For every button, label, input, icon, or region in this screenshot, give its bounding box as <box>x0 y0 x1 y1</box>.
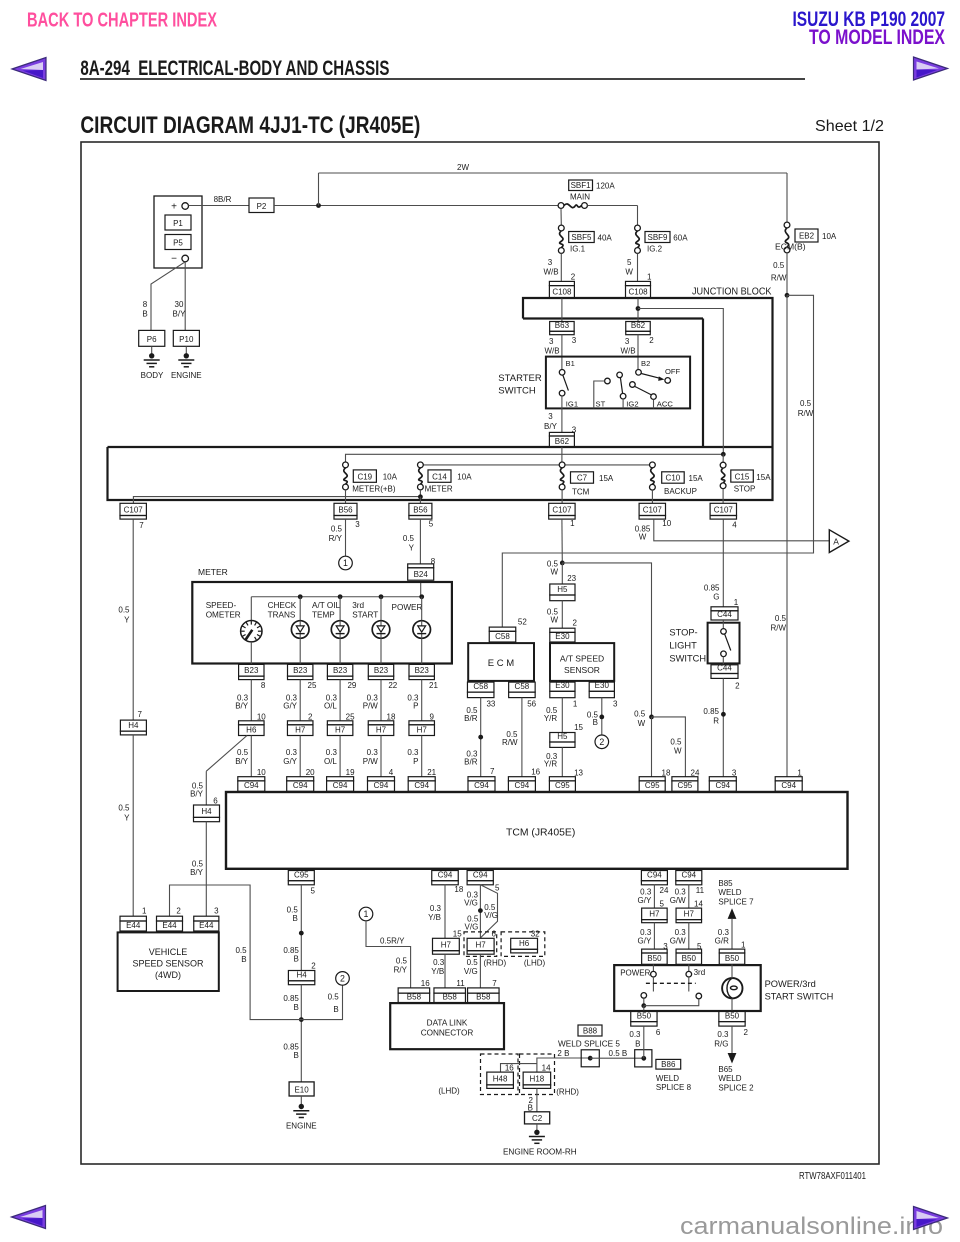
lamp A/T OIL TEMP <box>339 597 341 621</box>
wire H4-6 down <box>205 822 207 917</box>
svg-text:B62: B62 <box>555 437 570 446</box>
svg-text:C10: C10 <box>666 474 681 483</box>
svg-text:C15: C15 <box>735 472 750 481</box>
svg-text:P2: P2 <box>257 202 267 211</box>
H5-15 <box>550 733 575 743</box>
H4-7 <box>120 720 146 731</box>
svg-text:C94: C94 <box>781 781 796 790</box>
svg-text:19: 19 <box>346 768 355 777</box>
node bus col5 <box>419 594 424 599</box>
wire EB2 down <box>786 253 788 295</box>
svg-text:P: P <box>413 701 418 710</box>
svg-text:1: 1 <box>647 273 652 282</box>
svg-text:E C M: E C M <box>488 658 514 669</box>
svg-text:3: 3 <box>355 520 360 529</box>
svg-text:16: 16 <box>531 768 540 777</box>
wire C94-11 to H7-14 <box>688 885 690 909</box>
svg-text:IG2: IG2 <box>626 400 638 409</box>
svg-text:0.5: 0.5 <box>634 709 646 718</box>
junction block inner vertical <box>702 319 704 448</box>
C94-3 <box>709 777 736 781</box>
P2 <box>249 198 274 213</box>
svg-text:Y: Y <box>124 615 130 624</box>
svg-text:OFF: OFF <box>665 367 681 376</box>
svg-text:A: A <box>833 537 839 547</box>
svg-text:W: W <box>625 268 633 277</box>
svg-text:ACC: ACC <box>657 400 674 409</box>
svg-text:STOP-: STOP- <box>669 628 697 638</box>
svg-text:R/W: R/W <box>502 738 518 747</box>
svg-text:G/W: G/W <box>670 896 686 905</box>
svg-text:R: R <box>713 717 719 726</box>
svg-text:B58: B58 <box>476 992 491 1001</box>
wire meter col4 <box>380 663 382 666</box>
svg-text:C107: C107 <box>643 505 663 514</box>
svg-text:15A: 15A <box>599 474 614 483</box>
TCM box <box>226 792 848 869</box>
connector B62 top <box>626 322 651 332</box>
connector B56-3 <box>334 503 357 515</box>
ground ENGINE (E10) <box>300 1096 302 1105</box>
wire battery- to P6 (diagonal) <box>151 262 185 331</box>
svg-text:0.5: 0.5 <box>118 606 130 615</box>
fuse SBF1 MAIN 120A <box>558 203 564 209</box>
svg-text:TO MODEL INDEX: TO MODEL INDEX <box>809 25 945 49</box>
svg-text:0.5: 0.5 <box>287 905 299 914</box>
dashed box RHD H18 <box>520 1054 555 1095</box>
wire branch C95-18 column <box>649 715 654 720</box>
wire C107-7 down to H4 <box>132 519 134 720</box>
meter internal bus <box>251 596 421 598</box>
svg-text:H4: H4 <box>201 807 212 816</box>
svg-text:0.5: 0.5 <box>775 614 787 623</box>
svg-text:1: 1 <box>343 558 348 568</box>
svg-text:A/T OIL: A/T OIL <box>312 601 341 610</box>
C94-20 <box>287 777 314 781</box>
svg-text:32: 32 <box>531 930 540 939</box>
svg-text:DATA LINK: DATA LINK <box>427 1018 468 1027</box>
svg-text:24: 24 <box>660 886 669 895</box>
wire bus to C15 column <box>638 309 723 453</box>
svg-text:O/L: O/L <box>324 701 337 710</box>
svg-text:B/Y: B/Y <box>190 868 204 877</box>
E44-2 <box>157 916 183 921</box>
svg-text:ENGINE ROOM-RH: ENGINE ROOM-RH <box>503 1148 577 1157</box>
svg-text:B: B <box>294 1003 299 1012</box>
fuse SBF5 IG.1 40A <box>560 209 562 225</box>
svg-text:0.3: 0.3 <box>629 1030 641 1039</box>
svg-text:P1: P1 <box>173 219 183 228</box>
C44-2 <box>711 665 738 674</box>
connector B63 <box>550 322 575 332</box>
svg-text:7: 7 <box>492 979 497 988</box>
lower bus to C107-7 <box>133 497 420 504</box>
wire meter col3 <box>339 663 341 666</box>
C94-21 <box>408 777 435 781</box>
svg-text:H7: H7 <box>295 725 306 734</box>
svg-text:C44: C44 <box>717 663 732 672</box>
wire power contact to B50-6 <box>643 1006 645 1011</box>
C94-7 <box>468 777 495 781</box>
node bus col3 <box>338 594 343 599</box>
svg-text:B/Y: B/Y <box>544 422 558 431</box>
svg-text:B58: B58 <box>443 992 458 1001</box>
svg-text:CHECK: CHECK <box>268 601 297 610</box>
svg-text:22: 22 <box>388 681 397 690</box>
svg-text:R/W: R/W <box>771 274 787 283</box>
wire H5-15 to C95-13 <box>561 747 563 776</box>
svg-text:60A: 60A <box>673 234 688 243</box>
svg-text:B65: B65 <box>718 1065 733 1074</box>
H4-2 <box>288 971 314 981</box>
svg-text:C58: C58 <box>473 682 488 691</box>
connector B24 <box>408 564 434 568</box>
H7-18 <box>368 721 394 725</box>
wire B56-5 to B24 <box>419 519 421 564</box>
svg-text:15: 15 <box>574 723 583 732</box>
svg-text:H6: H6 <box>246 725 257 734</box>
svg-text:C19: C19 <box>357 472 372 481</box>
svg-text:P5: P5 <box>173 239 183 248</box>
svg-text:0.5: 0.5 <box>396 957 408 966</box>
wire C58-33 to C94-7 <box>480 698 482 777</box>
node junction to 2W <box>316 203 321 208</box>
svg-text:B: B <box>635 1039 640 1048</box>
switch contact power <box>652 964 654 971</box>
svg-text:B/R: B/R <box>464 758 478 767</box>
svg-text:C14: C14 <box>432 472 447 481</box>
svg-text:C94: C94 <box>715 781 730 790</box>
H7-2 <box>287 721 313 725</box>
svg-text:V/G: V/G <box>464 898 478 907</box>
wire H7-6 to B58-7 <box>479 954 481 988</box>
svg-text:15: 15 <box>453 930 462 939</box>
E10 <box>289 1082 314 1096</box>
svg-text:5: 5 <box>495 883 500 892</box>
svg-text:B50: B50 <box>725 1011 740 1020</box>
svg-text:B63: B63 <box>555 321 570 330</box>
dashed box LHD H48 <box>481 1054 519 1095</box>
svg-text:E44: E44 <box>126 921 141 930</box>
wire C107-10 to A <box>654 519 830 541</box>
svg-text:B: B <box>333 1005 338 1014</box>
svg-text:0.85: 0.85 <box>704 584 720 593</box>
svg-text:WELD: WELD <box>718 888 741 897</box>
C44-1 <box>711 607 738 611</box>
wire C44-2 to C94-3 <box>722 678 724 776</box>
svg-text:OMETER: OMETER <box>206 610 241 619</box>
B50-5 <box>676 949 702 953</box>
ECM box <box>468 643 534 681</box>
svg-text:B/R: B/R <box>464 714 478 723</box>
svg-text:B/Y: B/Y <box>190 789 204 798</box>
svg-text:2: 2 <box>573 619 578 628</box>
svg-text:SBF9: SBF9 <box>647 233 668 242</box>
svg-text:9: 9 <box>429 712 434 721</box>
starter terminal B1 <box>559 370 565 376</box>
svg-text:R/Y: R/Y <box>329 534 343 543</box>
svg-text:25: 25 <box>308 681 317 690</box>
svg-text:C107: C107 <box>124 505 144 514</box>
H6-32 <box>511 938 538 949</box>
svg-text:(LHD): (LHD) <box>524 959 546 968</box>
H7-6 <box>467 938 494 950</box>
svg-text:C2: C2 <box>532 1114 543 1123</box>
svg-text:SBF1: SBF1 <box>571 181 592 190</box>
svg-text:Sheet 1/2: Sheet 1/2 <box>815 118 884 135</box>
svg-text:H6: H6 <box>519 939 530 948</box>
svg-text:B56: B56 <box>413 505 428 514</box>
bus2 (IG1) fuse tops <box>420 464 652 466</box>
svg-text:B: B <box>142 310 147 319</box>
E44-1 <box>120 916 146 921</box>
nav arrow bottom-left <box>12 1206 46 1229</box>
svg-text:40A: 40A <box>598 234 613 243</box>
svg-text:0.5: 0.5 <box>331 525 343 534</box>
starter terminal ST <box>605 378 611 384</box>
svg-text:B: B <box>528 1104 533 1113</box>
C94-11b <box>676 871 702 881</box>
wire B56-3 down <box>345 519 347 556</box>
C94-18b <box>432 871 459 881</box>
wire C94-24 to H7-5 <box>653 885 655 909</box>
wire H7-14 to B50-5 <box>688 923 690 949</box>
svg-text:Y/B: Y/B <box>428 913 441 922</box>
C2 <box>525 1112 550 1124</box>
svg-text:C94: C94 <box>414 781 429 790</box>
sheet arrow A <box>829 530 849 553</box>
bubble 2 wire <box>301 985 342 1019</box>
power/3rd start switch box <box>614 965 761 1011</box>
node EB2 branch <box>785 293 790 298</box>
svg-text:B/Y: B/Y <box>173 310 187 319</box>
svg-text:2: 2 <box>340 973 345 983</box>
connector C107-7 <box>120 503 146 515</box>
svg-text:1: 1 <box>573 699 578 708</box>
svg-text:11: 11 <box>696 886 705 895</box>
starter terminal B2 <box>636 370 642 376</box>
connector C108 (IG.2) <box>626 281 651 285</box>
svg-text:JUNCTION BLOCK: JUNCTION BLOCK <box>692 287 772 298</box>
svg-text:B50: B50 <box>647 954 662 963</box>
svg-text:16: 16 <box>421 979 430 988</box>
svg-text:2W: 2W <box>457 163 469 172</box>
wire B50-6 to splice8 <box>643 1026 645 1058</box>
svg-text:B50: B50 <box>725 954 740 963</box>
svg-text:C95: C95 <box>678 781 693 790</box>
svg-text:8: 8 <box>143 300 148 309</box>
svg-text:C95: C95 <box>294 871 309 880</box>
connector C107-4 <box>710 503 736 515</box>
svg-text:B: B <box>593 718 598 727</box>
C95-18 <box>639 777 665 781</box>
svg-text:H5: H5 <box>557 585 568 594</box>
svg-text:Y: Y <box>124 814 130 823</box>
svg-text:W: W <box>674 747 682 756</box>
A/T speed sensor box <box>550 643 614 681</box>
svg-text:G/Y: G/Y <box>283 701 297 710</box>
svg-text:2: 2 <box>571 273 576 282</box>
wire P2 to SBF1 <box>274 205 561 207</box>
H18-14 <box>523 1072 551 1085</box>
svg-text:R/W: R/W <box>770 624 786 633</box>
starter blade B1-IG1 <box>563 375 569 391</box>
svg-text:0.3: 0.3 <box>430 904 442 913</box>
svg-text:IG.2: IG.2 <box>647 245 663 254</box>
svg-text:0.5: 0.5 <box>235 946 247 955</box>
svg-text:11: 11 <box>456 979 465 988</box>
svg-text:2: 2 <box>176 907 181 916</box>
svg-text:W/B: W/B <box>543 268 558 277</box>
svg-text:W: W <box>550 615 558 624</box>
svg-text:0.3: 0.3 <box>326 748 338 757</box>
svg-text:B86: B86 <box>661 1060 676 1069</box>
svg-text:10: 10 <box>257 712 266 721</box>
wire C108-2 to B63 <box>561 298 563 322</box>
wire H7-15 to B58-11 <box>444 954 446 988</box>
svg-text:0.3: 0.3 <box>717 1030 729 1039</box>
svg-text:E30: E30 <box>555 632 570 641</box>
svg-text:0.5: 0.5 <box>467 958 479 967</box>
svg-text:7: 7 <box>137 710 142 719</box>
svg-text:B23: B23 <box>374 666 389 675</box>
alternate loop (LHD) <box>480 885 497 938</box>
svg-text:0.5: 0.5 <box>237 748 249 757</box>
svg-text:W: W <box>550 567 558 576</box>
wire B63 to starter B1 <box>561 335 563 370</box>
stop switch contacts <box>722 620 724 629</box>
svg-text:2: 2 <box>735 682 740 691</box>
svg-text:3: 3 <box>548 412 553 421</box>
node bus1 C15 <box>721 452 726 457</box>
junction block bar bottom edge <box>523 317 703 319</box>
svg-text:B: B <box>292 914 297 923</box>
wire IG1 to B62 bottom <box>561 396 563 432</box>
svg-text:V/G: V/G <box>484 911 498 920</box>
svg-text:6: 6 <box>491 930 496 939</box>
svg-text:8A-294 ELECTRICAL-BODY AND CH: 8A-294 ELECTRICAL-BODY AND CHASSIS <box>80 57 389 80</box>
wire C107-4 down <box>722 519 724 607</box>
svg-text:25: 25 <box>346 712 355 721</box>
svg-text:H7: H7 <box>441 941 452 950</box>
svg-text:1: 1 <box>570 519 575 528</box>
wire B50-2 to splice2 arrow <box>731 1026 733 1053</box>
svg-text:ENGINE: ENGINE <box>286 1122 317 1131</box>
ground BODY <box>151 346 153 354</box>
svg-text:VEHICLE: VEHICLE <box>149 947 188 957</box>
svg-text:SWITCH: SWITCH <box>498 386 536 397</box>
svg-text:CONNECTOR: CONNECTOR <box>421 1028 474 1037</box>
svg-text:B23: B23 <box>244 666 259 675</box>
svg-text:1: 1 <box>142 907 147 916</box>
svg-text:WELD: WELD <box>656 1074 679 1083</box>
starter arrow B2 to OFF <box>641 374 661 379</box>
wire C108-1 to B62 <box>637 298 639 322</box>
P6 <box>139 330 165 346</box>
svg-text:P: P <box>413 757 418 766</box>
svg-text:15A: 15A <box>756 473 771 482</box>
B50-1 <box>719 949 745 953</box>
fuse C19 METER(+B) 10A <box>343 462 349 468</box>
svg-text:E30: E30 <box>555 681 570 690</box>
svg-text:H7: H7 <box>684 909 695 918</box>
switch lower contacts <box>641 993 647 999</box>
switch dashed link <box>646 982 696 984</box>
svg-text:C107: C107 <box>552 505 572 514</box>
C95-24 <box>672 777 698 781</box>
svg-text:STOP: STOP <box>734 485 756 494</box>
svg-text:START: START <box>352 610 378 619</box>
starter terminal IG2 <box>617 372 623 378</box>
svg-text:LIGHT: LIGHT <box>669 641 697 651</box>
svg-text:B2: B2 <box>641 359 650 368</box>
2W bus wire <box>319 172 788 174</box>
svg-text:SPLICE 8: SPLICE 8 <box>656 1083 692 1092</box>
svg-text:G/Y: G/Y <box>638 936 652 945</box>
svg-text:C94: C94 <box>473 871 488 880</box>
svg-text:C58: C58 <box>515 682 530 691</box>
fuse C14 METER 10A <box>418 462 424 468</box>
stop light switch box <box>708 623 740 664</box>
svg-text:8B/R: 8B/R <box>214 195 232 204</box>
wire C107-1 down <box>561 519 563 563</box>
E30-2 <box>550 628 575 632</box>
weld splice 5 joint <box>581 1050 599 1067</box>
nav arrow top-right <box>914 57 948 80</box>
svg-text:10A: 10A <box>457 473 472 482</box>
svg-text:0.85: 0.85 <box>703 707 719 716</box>
C94-10 <box>238 777 265 781</box>
bubble 2 (ground ref) <box>595 735 609 749</box>
junction block outline <box>108 298 773 500</box>
wire H4-7 to E44-1 <box>132 735 134 916</box>
meter box <box>192 582 452 664</box>
svg-text:120A: 120A <box>596 182 615 191</box>
fuse C15 STOP 15A <box>722 454 724 462</box>
C94-24b <box>641 871 667 881</box>
P1 <box>165 215 191 230</box>
svg-text:(RHD): (RHD) <box>556 1088 579 1097</box>
svg-text:B/Y: B/Y <box>235 701 249 710</box>
svg-text:IG1: IG1 <box>566 400 578 409</box>
svg-text:0.5: 0.5 <box>670 737 682 746</box>
svg-text:WELD: WELD <box>718 1074 741 1083</box>
svg-text:W: W <box>639 533 647 542</box>
svg-text:R/G: R/G <box>714 1039 728 1048</box>
svg-text:B50: B50 <box>682 954 697 963</box>
wire bubble1 to B58-16 <box>366 921 411 988</box>
svg-text:0.85: 0.85 <box>283 1043 299 1052</box>
starter terminal IG1 <box>559 390 565 396</box>
lamp 3rd START <box>380 597 382 621</box>
bubble 1 (to DLC) <box>359 907 373 921</box>
E30-1 <box>550 682 575 691</box>
wire C94-5 to H7-6 (RHD) <box>479 885 481 939</box>
speedometer gauge <box>241 621 262 642</box>
wire 0.5 R/W down to TCM C94-1 <box>786 295 788 776</box>
starter switch box <box>546 357 690 409</box>
starter terminal OFF <box>665 378 671 384</box>
svg-text:B23: B23 <box>293 666 308 675</box>
svg-text:BACKUP: BACKUP <box>664 487 697 496</box>
wire 2W down to EB2 <box>786 173 788 225</box>
svg-text:0.5: 0.5 <box>328 992 340 1001</box>
B58-11 <box>434 988 466 993</box>
speedometer out wire <box>250 642 252 664</box>
wire B62 to fuse C7 <box>561 447 563 462</box>
P10 <box>173 330 199 346</box>
B58-7 <box>468 988 500 993</box>
